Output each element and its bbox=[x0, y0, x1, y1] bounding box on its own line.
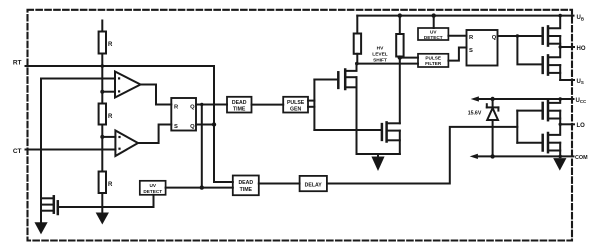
svg-text:LEVEL: LEVEL bbox=[372, 52, 388, 58]
diode D1 zener 15.6V bbox=[492, 99, 494, 107]
ground Q1 arrow bbox=[35, 223, 47, 234]
wire comparator1 output to latch R input bbox=[141, 85, 172, 105]
svg-text:R: R bbox=[469, 35, 474, 41]
wire latch2 Q to HO gates bbox=[498, 35, 543, 37]
wire COM rail with arrow bbox=[471, 154, 478, 158]
node junction Qbar-RT vertical bbox=[212, 122, 216, 126]
resistor R1 bbox=[99, 32, 106, 54]
wire LO gate bracket bbox=[516, 111, 518, 143]
block UV DETECT high side bbox=[418, 28, 448, 40]
wire chain segment bbox=[101, 125, 103, 137]
node HO bbox=[559, 45, 562, 48]
node LO bbox=[559, 123, 562, 126]
node junction R5 bottom bbox=[398, 55, 402, 59]
wire feedback loop to comparator1 + input bbox=[41, 79, 115, 199]
wire CT pin to comparator2 input bbox=[26, 149, 116, 151]
wire chain segment bbox=[101, 137, 103, 172]
node junction zener COM bbox=[490, 154, 494, 158]
wire Q1 gate line bbox=[58, 206, 154, 208]
wire Q tap down to UV line bbox=[201, 105, 203, 188]
resistor R5 level shift pullup bbox=[399, 16, 401, 34]
svg-text:UCC: UCC bbox=[576, 98, 588, 104]
wire chain segment bbox=[101, 92, 103, 104]
wire Q2 source down to common bbox=[356, 77, 358, 154]
block DELAY bbox=[300, 176, 327, 191]
svg-text:GEN: GEN bbox=[290, 106, 301, 112]
svg-text:Q: Q bbox=[190, 124, 195, 130]
node junction Q6 drain VCC bbox=[558, 97, 562, 101]
wire RT pin to oscillator vertical bbox=[26, 66, 233, 182]
svg-text:UV: UV bbox=[149, 183, 156, 188]
svg-text:R: R bbox=[108, 114, 113, 120]
node junction Q4 drain VB bbox=[558, 14, 562, 18]
wire common source rail bbox=[357, 153, 400, 155]
wire VB rail bbox=[357, 15, 573, 17]
label HV LEVEL SHIFT bbox=[372, 46, 388, 64]
wire gate riser to UV detect bbox=[153, 195, 155, 207]
svg-text:HO: HO bbox=[577, 46, 586, 52]
node junction Q7 source COM bbox=[558, 155, 562, 159]
svg-text:DEAD: DEAD bbox=[238, 180, 253, 186]
resistor R2 bbox=[99, 104, 106, 125]
pin RT label bbox=[13, 60, 22, 67]
wire LO to pin bbox=[560, 123, 574, 125]
wire HO gate bracket bbox=[517, 36, 542, 64]
wire pulse gen outputs bbox=[308, 100, 314, 102]
node junction R5 top bbox=[398, 13, 402, 17]
resistor R4 level shift pullup bbox=[356, 16, 358, 34]
wire R5 node to pulse filter bbox=[400, 57, 418, 59]
svg-text:R: R bbox=[108, 182, 113, 188]
transistor Q4 HO high bbox=[541, 28, 544, 44]
svg-text:15.6V: 15.6V bbox=[468, 110, 482, 116]
wire dead time to pulse gen bbox=[252, 104, 284, 106]
node junction zener VCC bbox=[490, 97, 494, 101]
wire R1 bottom to RT line bbox=[101, 54, 103, 67]
transistor Q1 CT discharge MOSFET bbox=[41, 197, 54, 199]
block DEAD TIME oscillator bbox=[227, 97, 252, 113]
node junction R4 drain bbox=[355, 62, 359, 66]
wire latch Q to dead time 1 bbox=[196, 104, 227, 106]
wire delay output to LO driver bbox=[327, 127, 517, 184]
pin HO label bbox=[577, 46, 586, 52]
wire VCC rail with arrow bbox=[472, 97, 479, 101]
op-amp comparator A2 bbox=[115, 131, 138, 157]
svg-text:US: US bbox=[577, 79, 584, 85]
wire gate drive vertical bbox=[313, 80, 315, 131]
svg-text:S: S bbox=[174, 124, 178, 130]
op-amp comparator A1 bbox=[115, 72, 141, 98]
svg-text:DEAD: DEAD bbox=[232, 100, 247, 106]
pin LO label bbox=[577, 123, 586, 129]
svg-text:PULSE: PULSE bbox=[425, 56, 441, 61]
wire UV2 to VB rail bbox=[433, 16, 435, 28]
block DEAD TIME low side bbox=[233, 176, 259, 196]
svg-text:DETECT: DETECT bbox=[143, 189, 162, 194]
svg-text:TIME: TIME bbox=[240, 187, 253, 193]
wire UV2 output to latch R bbox=[448, 35, 466, 37]
node junction UV2 top bbox=[432, 13, 436, 17]
block UV DETECT low side bbox=[140, 181, 166, 195]
transistor Q2 level shift high pulse bbox=[314, 79, 337, 81]
node chain top stub bbox=[101, 21, 103, 32]
svg-text:Q: Q bbox=[492, 35, 497, 41]
latch U1 RS flip-flop bbox=[171, 98, 196, 131]
node junction Q tap / UV line bbox=[200, 185, 204, 189]
transistor Q5 HO low bbox=[541, 57, 544, 73]
node junction comp1 minus bbox=[100, 90, 104, 94]
svg-text:R: R bbox=[174, 105, 179, 111]
svg-text:DELAY: DELAY bbox=[305, 183, 323, 189]
pin VB label bbox=[577, 15, 585, 21]
svg-text:Q: Q bbox=[190, 105, 195, 111]
transistor Q7 LO low bbox=[541, 135, 544, 151]
pin CT label bbox=[13, 148, 22, 155]
wire comparator2 output to latch S input bbox=[138, 125, 171, 144]
wire pulse filter output to latch S bbox=[448, 48, 466, 61]
resistor R3 bbox=[99, 172, 106, 194]
ground level shift arrow bbox=[377, 154, 379, 157]
svg-text:UB: UB bbox=[577, 15, 585, 21]
wire dead time to delay bbox=[259, 183, 300, 185]
node junction comp2 plus bbox=[100, 135, 104, 139]
wire VS to pin bbox=[560, 79, 574, 81]
wire chain RT to comp1 tap bbox=[101, 66, 103, 92]
pin VCC label bbox=[576, 98, 588, 104]
wire UV detect output bbox=[166, 187, 233, 189]
svg-text:TIME: TIME bbox=[233, 106, 246, 112]
latch U2 RS flip-flop high side bbox=[467, 30, 498, 66]
ground chain arrow bbox=[97, 213, 109, 224]
wire chain to ground bbox=[101, 193, 103, 213]
svg-text:S: S bbox=[469, 48, 473, 54]
pin COM label bbox=[575, 155, 588, 161]
transistor Q3 level shift low pulse bbox=[314, 129, 381, 131]
svg-text:HV: HV bbox=[377, 46, 384, 52]
svg-text:CT: CT bbox=[13, 148, 22, 155]
wire latch Qbar to RT vertical bbox=[196, 124, 214, 126]
pin VS label bbox=[577, 79, 584, 85]
transistor Q6 LO high bbox=[541, 103, 544, 119]
svg-text:LO: LO bbox=[577, 123, 586, 129]
wire to comparator1 lower input bbox=[102, 91, 115, 93]
wire HO to pin bbox=[560, 46, 574, 48]
block PULSE FILTER bbox=[418, 54, 448, 67]
svg-text:COM: COM bbox=[575, 155, 588, 161]
svg-text:PULSE: PULSE bbox=[287, 100, 305, 106]
svg-text:DETECT: DETECT bbox=[424, 35, 443, 40]
svg-text:RT: RT bbox=[13, 60, 22, 67]
svg-text:R: R bbox=[108, 42, 113, 48]
wire R4 node to pulse filter bbox=[357, 63, 419, 65]
block PULSE GEN bbox=[283, 97, 308, 113]
node junction chain-RT bbox=[101, 64, 105, 68]
svg-text:FILTER: FILTER bbox=[425, 61, 442, 66]
wire to comparator2 upper input bbox=[102, 136, 115, 138]
svg-text:SHIFT: SHIFT bbox=[373, 58, 387, 64]
ground COM arrow bbox=[554, 159, 566, 170]
svg-text:UV: UV bbox=[430, 30, 437, 35]
